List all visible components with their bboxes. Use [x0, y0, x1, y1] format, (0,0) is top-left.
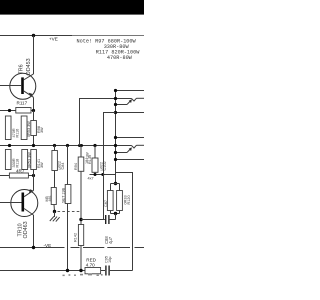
svg-text:R118: R118 [15, 159, 19, 168]
resistor ladder row1 box3 [31, 121, 37, 136]
resistor ladder row1 box2 [21, 116, 27, 140]
svg-text:OD463: OD463 [23, 221, 29, 238]
resistor R120 [117, 191, 123, 211]
svg-text:R94: R94 [74, 163, 78, 170]
resistor ladder row2 box2 [22, 150, 28, 170]
node dot ground [53, 210, 56, 213]
wire preset down to rail [67, 204, 69, 271]
resistor R117 [16, 108, 31, 114]
svg-text:SET 19B: SET 19B [61, 187, 65, 203]
status bar top [0, 0, 144, 15]
tiny marks above nav bar [63, 273, 103, 276]
capacitor C102 box [92, 158, 98, 172]
svg-text:461: 461 [48, 195, 52, 201]
svg-text:4x7: 4x7 [88, 177, 94, 181]
wire jack branch left [104, 113, 116, 175]
wire dashed gang link [58, 211, 80, 213]
+VE rail [0, 35, 72, 37]
svg-text:3W: 3W [40, 127, 44, 133]
note text [77, 38, 141, 61]
wire TR6 collector from +VE [33, 36, 35, 75]
capacitor C87 [107, 191, 113, 211]
wire output bus [0, 145, 116, 147]
jack J1 [114, 89, 144, 184]
wire cap drop [103, 175, 105, 220]
node dot left R117 [8, 109, 11, 112]
resistor R118 ladder row2 box1 [5, 150, 11, 170]
svg-text:10µ: 10µ [108, 256, 112, 263]
wire feed line y174 [90, 174, 116, 176]
svg-text:OD453: OD453 [26, 58, 32, 75]
svg-text:R116: R116 [15, 129, 19, 138]
node +VE dot [32, 34, 35, 37]
wire TR6 base [0, 85, 21, 87]
transistor TR6 [10, 73, 36, 99]
svg-text:4.70: 4.70 [86, 263, 95, 268]
resistor RED 4.70 [85, 268, 101, 274]
wire output node corner [80, 99, 116, 146]
transistor TR10 [11, 189, 38, 216]
capacitor C84 box [52, 151, 58, 171]
svg-text:R142: R142 [73, 233, 77, 242]
ground [50, 212, 60, 222]
resistor ladder row2 box3 [31, 150, 37, 170]
svg-text:TR6: TR6 [19, 64, 25, 74]
svg-text:R139: R139 [88, 155, 92, 164]
svg-text:+VE: +VE [49, 37, 58, 42]
resistor R131 [51, 188, 56, 205]
bottom rail [0, 270, 85, 272]
svg-text:470R-80W: 470R-80W [107, 55, 133, 61]
wire branch to right edge [116, 173, 133, 271]
svg-text:R117: R117 [17, 101, 28, 106]
node dot C88 tap [79, 218, 82, 221]
node Zobel bottom [110, 211, 112, 214]
-VE rail [0, 247, 144, 249]
node dot right R117 [32, 109, 35, 112]
svg-text:-VE: -VE [44, 243, 52, 248]
node Zobel top [114, 182, 117, 185]
node -VE dot [32, 246, 35, 249]
svg-text:R120: R120 [127, 195, 131, 204]
svg-text:C84: C84 [61, 163, 65, 170]
wire TR10 base [0, 202, 22, 204]
capacitor C88 [81, 215, 116, 244]
resistor 4R7 [9, 173, 28, 178]
svg-text:3W: 3W [40, 162, 44, 168]
wire 4R7 left lead [0, 175, 9, 177]
preset SET 19B [65, 185, 71, 204]
jack J2 [114, 136, 144, 161]
resistor R142 [78, 225, 83, 246]
wire TR10 emitter up [33, 170, 35, 191]
wire 4R7 right lead [28, 175, 33, 177]
svg-text:C87: C87 [104, 200, 108, 207]
svg-text:4µ7: 4µ7 [108, 236, 113, 244]
capacitor C95 [104, 256, 112, 276]
resistor R116 ladder row1 box1 [5, 116, 11, 140]
wire TR10 collector down [33, 215, 35, 248]
wire node line R117 [0, 110, 34, 112]
wire TR6 emitter down [33, 97, 35, 110]
node bus dots [8, 144, 11, 147]
resistor R94 [78, 157, 84, 171]
node dot 4R7 [32, 174, 35, 177]
